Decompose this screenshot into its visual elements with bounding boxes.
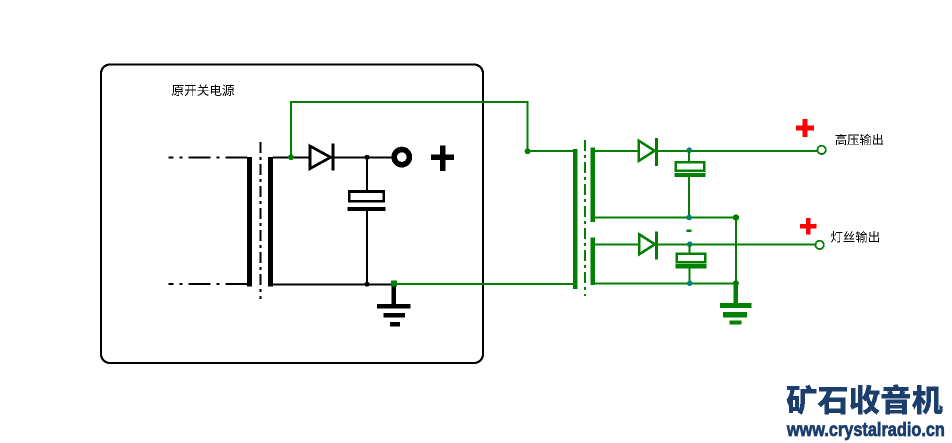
wire: HV winding bottom rail <box>595 217 736 219</box>
wire: green link from D1 anode node up and over to T2 primary top <box>291 102 574 158</box>
wire: C2 bottom lead <box>688 177 690 217</box>
wire: green ground-rail link to T2 primary bottom <box>394 283 574 285</box>
label: 高压输出 <box>836 134 883 145</box>
net tie mark (dash) between rails <box>687 230 692 232</box>
diode D1 <box>310 144 333 171</box>
wire: vertical drop to ground G2 <box>735 218 737 303</box>
wire: D3 cathode to filament output <box>658 243 815 245</box>
plus sign (polarity mark, black) <box>431 146 454 171</box>
node: green junction HV rail to ground drop <box>733 214 739 220</box>
junction node: C1 bottom on rail <box>365 282 370 287</box>
capacitor C3 (electrolytic, green) <box>675 254 706 269</box>
transformer T1 primary winding bar <box>247 157 252 287</box>
wire: primary top lead (dash-dot) <box>169 157 248 159</box>
label: 原开关电源 <box>172 84 234 96</box>
transformer T2 secondary winding bar (filament) <box>591 238 596 286</box>
wire: D1 cathode to terminal <box>335 156 392 158</box>
node: C3 top junction (teal) <box>687 242 693 248</box>
capacitor C1 (electrolytic) <box>348 192 386 212</box>
plus sign (red, filament output) <box>800 218 817 235</box>
wire: filament winding top to diode D3 <box>595 243 639 245</box>
node: C3 bottom junction (teal) <box>687 281 693 287</box>
wire: D2 cathode to HV output <box>658 150 818 152</box>
label: 灯丝输出 <box>831 231 879 243</box>
terminal: filament output circle <box>815 241 823 249</box>
logo: 矿石收音机 <box>787 384 943 415</box>
transformer T2 primary winding bar <box>573 149 578 289</box>
transformer T1 core (dash-dot line) <box>260 142 262 299</box>
enclosure box: original switching power supply <box>101 65 483 364</box>
wire: T1 secondary top to diode D1 <box>273 156 310 158</box>
wire: C2 top lead <box>688 151 690 161</box>
plus sign (red, HV output) <box>796 119 814 137</box>
svg-text:www.crystalradio.cn: www.crystalradio.cn <box>786 420 945 441</box>
capacitor C2 (electrolytic, green) <box>674 162 705 177</box>
terminal circle (B+ output of old PSU) <box>394 150 409 165</box>
wire: HV winding top to diode D2 <box>595 150 638 152</box>
node: green junction at G1 ground point <box>391 281 397 287</box>
wire: C1 bottom lead <box>366 211 368 284</box>
transformer T2 secondary winding bar (HV) <box>591 148 596 223</box>
wire: filament winding bottom rail <box>595 282 736 284</box>
diode D2 <box>639 138 656 166</box>
ground G1 <box>377 284 411 326</box>
wire: T1 secondary bottom rail <box>273 283 394 285</box>
wire: C3 top lead <box>689 244 691 253</box>
node: C2 bottom junction (teal) <box>686 215 692 221</box>
transformer T1 secondary winding bar <box>268 157 273 287</box>
wire: C3 bottom lead <box>689 269 691 284</box>
wire: C1 top lead <box>366 157 368 191</box>
junction node: D1 output / C1 top <box>365 155 370 160</box>
node: green junction bottom rail / ground drop <box>733 280 739 286</box>
node: C2 top junction (teal) <box>686 148 692 154</box>
node: green junction on D1 anode wire <box>288 154 294 160</box>
transformer T2 core (dash-dot line) <box>584 140 586 296</box>
wire: primary bottom lead (dash-dot) <box>169 283 248 285</box>
logo url: www.crystalradio.cn <box>786 420 945 441</box>
diode D3 <box>639 232 656 260</box>
ground G2 (green) <box>720 283 751 324</box>
node: green junction at T2 primary top corner <box>525 148 531 154</box>
terminal: HV output circle <box>817 146 825 154</box>
